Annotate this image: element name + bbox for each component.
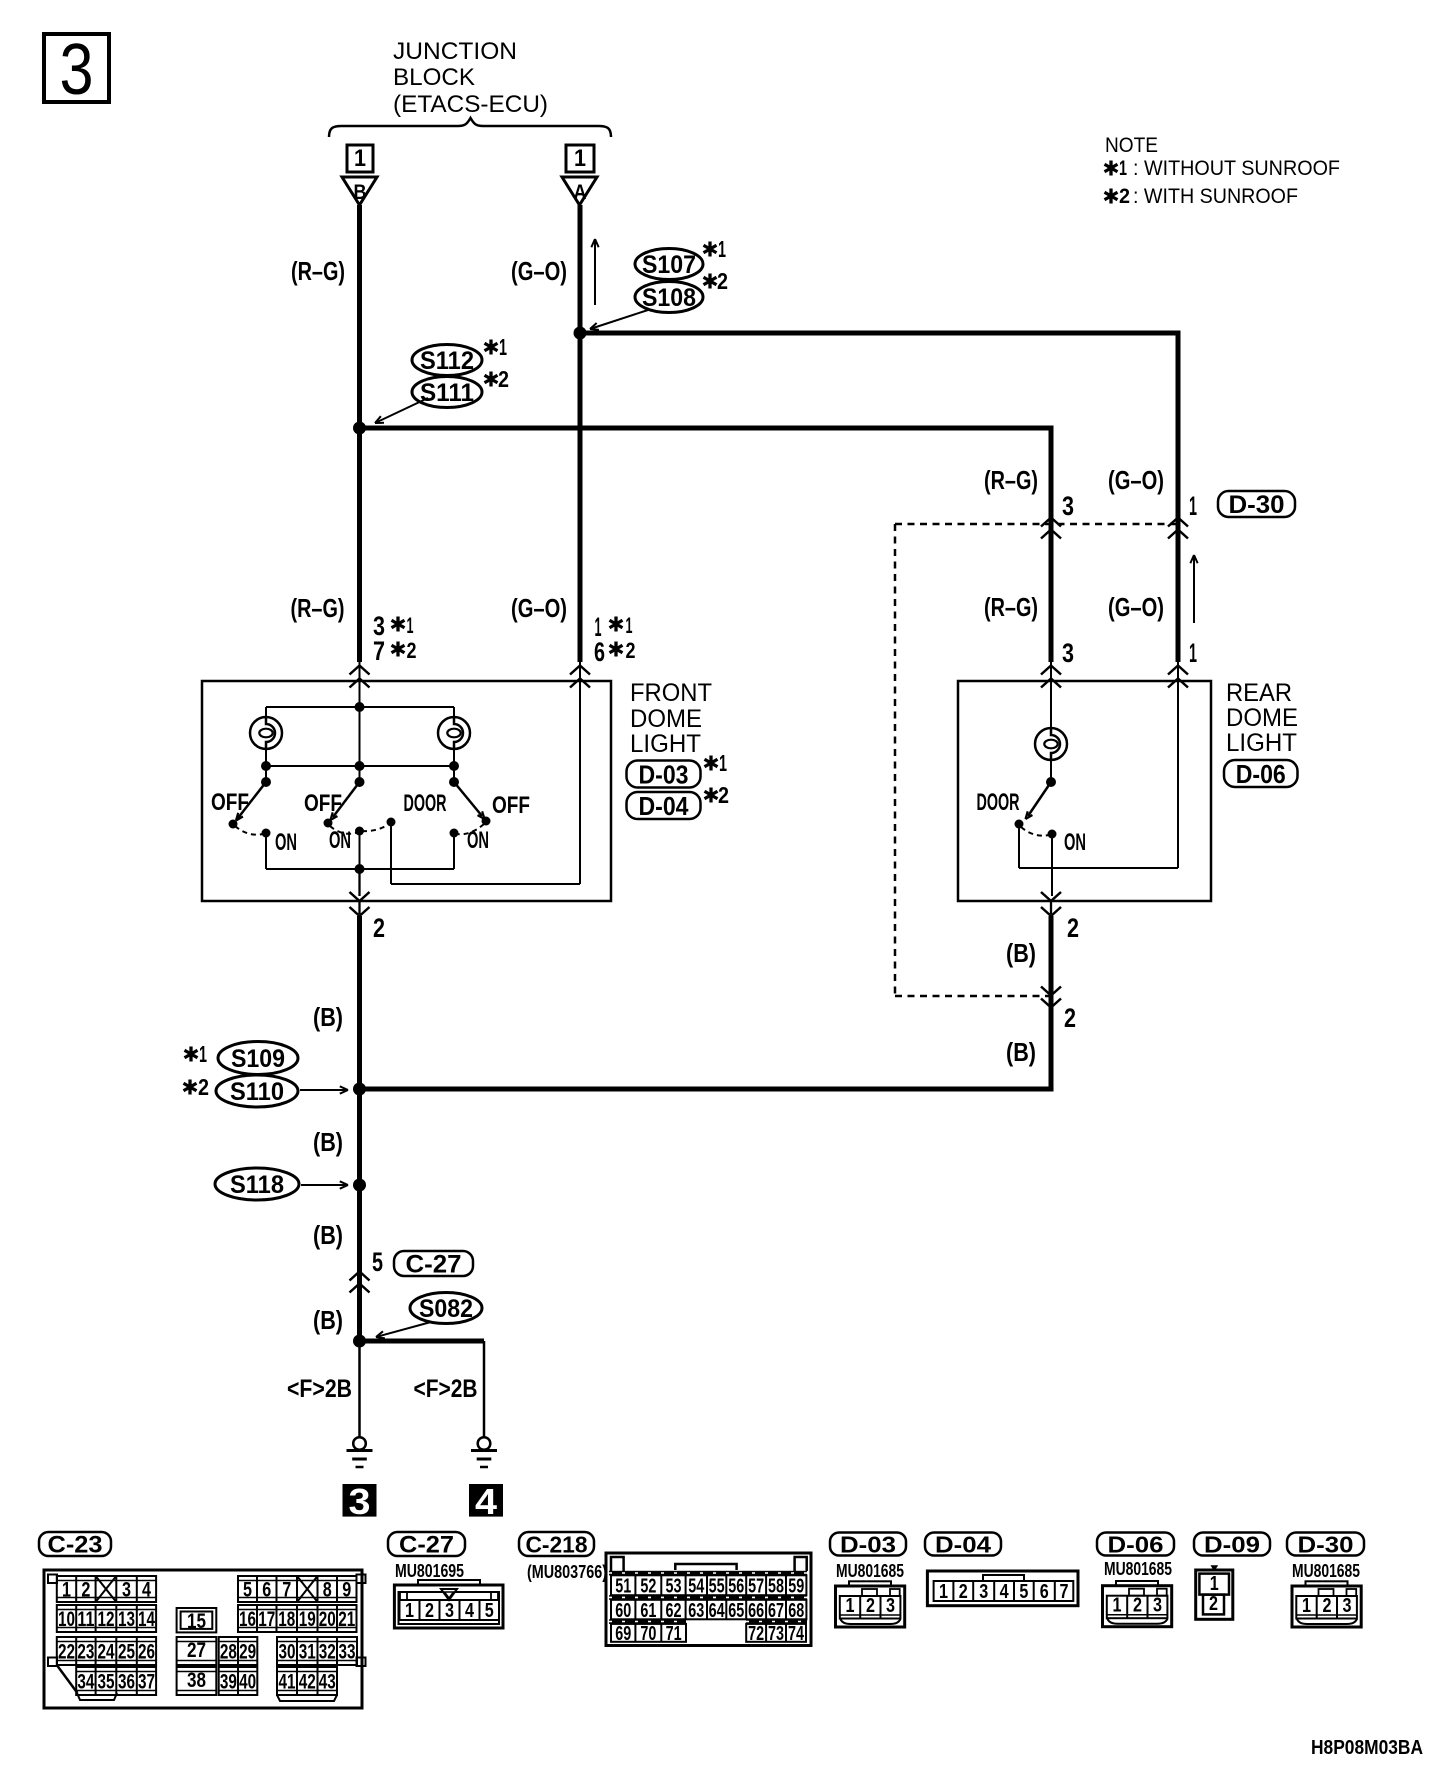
svg-text:26: 26	[138, 1641, 155, 1664]
svg-text:2: 2	[718, 782, 729, 808]
svg-text:19: 19	[299, 1608, 316, 1631]
svg-text:24: 24	[97, 1641, 114, 1664]
svg-text:2: 2	[81, 1579, 90, 1602]
svg-text:B: B	[354, 181, 367, 204]
svg-text:(B): (B)	[313, 1220, 343, 1250]
svg-text:23: 23	[77, 1641, 94, 1664]
svg-text:(B): (B)	[313, 1002, 343, 1032]
svg-text:18: 18	[278, 1608, 295, 1631]
svg-text:(G–O): (G–O)	[511, 593, 567, 623]
svg-text:(MU803766): (MU803766)	[527, 1562, 607, 1582]
svg-text:71: 71	[666, 1623, 682, 1645]
svg-text:1: 1	[1189, 491, 1197, 521]
svg-text:C-27: C-27	[406, 1251, 462, 1279]
svg-text:3: 3	[122, 1579, 131, 1602]
svg-text:6: 6	[594, 637, 605, 667]
svg-text:ON: ON	[275, 829, 297, 856]
svg-text:1: 1	[719, 750, 727, 776]
svg-text:10: 10	[58, 1608, 75, 1631]
svg-text:3: 3	[1062, 638, 1074, 668]
svg-text:28: 28	[220, 1641, 237, 1664]
svg-text:41: 41	[279, 1671, 296, 1694]
svg-text:C-218: C-218	[526, 1531, 588, 1557]
svg-text:8: 8	[323, 1579, 332, 1602]
svg-text:73: 73	[768, 1623, 784, 1645]
svg-text:: WITHOUT SUNROOF: : WITHOUT SUNROOF	[1133, 157, 1340, 180]
svg-text:7: 7	[1060, 1581, 1069, 1603]
svg-text:34: 34	[77, 1671, 94, 1694]
svg-text:S110: S110	[230, 1078, 284, 1106]
svg-text:2: 2	[1119, 185, 1130, 208]
svg-text:27: 27	[187, 1639, 206, 1662]
svg-text:13: 13	[118, 1608, 135, 1631]
svg-text:22: 22	[58, 1641, 75, 1664]
svg-text:29: 29	[239, 1641, 256, 1664]
svg-text:1: 1	[62, 1579, 71, 1602]
svg-text:2: 2	[425, 1600, 434, 1622]
svg-text:1: 1	[939, 1581, 948, 1603]
svg-text:(G–O): (G–O)	[511, 256, 567, 286]
svg-text:FRONT: FRONT	[630, 679, 712, 707]
svg-text:S112: S112	[420, 347, 474, 375]
svg-text:54: 54	[688, 1575, 705, 1597]
svg-text:D-03: D-03	[639, 759, 689, 789]
svg-text:3: 3	[60, 30, 94, 110]
svg-text:D-30: D-30	[1298, 1531, 1354, 1557]
svg-text:2: 2	[717, 268, 728, 294]
svg-text:MU801695: MU801695	[395, 1561, 464, 1581]
svg-text:15: 15	[187, 1610, 206, 1633]
svg-text:43: 43	[319, 1671, 336, 1694]
svg-text:LIGHT: LIGHT	[630, 730, 701, 758]
svg-text:D-06: D-06	[1108, 1531, 1164, 1557]
svg-text:2: 2	[1133, 1595, 1142, 1617]
svg-text:4: 4	[142, 1579, 151, 1602]
svg-text:4: 4	[465, 1600, 475, 1622]
svg-text:<F>2B: <F>2B	[287, 1375, 352, 1403]
svg-text:1: 1	[626, 613, 633, 638]
svg-text:DOME: DOME	[630, 705, 702, 733]
svg-text:66: 66	[748, 1600, 764, 1622]
svg-text:20: 20	[319, 1608, 336, 1631]
svg-text:NOTE: NOTE	[1105, 134, 1158, 157]
svg-text:1: 1	[405, 1600, 414, 1622]
svg-text:3: 3	[1062, 491, 1074, 521]
svg-text:1: 1	[407, 613, 414, 638]
svg-text:MU801685: MU801685	[1104, 1559, 1172, 1579]
svg-text:4: 4	[1000, 1581, 1010, 1603]
svg-text:2: 2	[198, 1074, 209, 1100]
svg-text:(B): (B)	[1006, 1037, 1036, 1067]
svg-text:DOOR: DOOR	[977, 789, 1020, 816]
svg-text:2: 2	[1064, 1003, 1076, 1033]
svg-text:32: 32	[319, 1641, 336, 1664]
svg-text:C-23: C-23	[48, 1532, 103, 1559]
svg-text:(R–G): (R–G)	[984, 465, 1038, 495]
svg-text:LIGHT: LIGHT	[1226, 729, 1297, 757]
svg-text:7: 7	[373, 636, 385, 666]
svg-text:5: 5	[1019, 1581, 1028, 1603]
svg-text:69: 69	[615, 1623, 631, 1645]
svg-text:1: 1	[718, 236, 726, 262]
svg-text:: WITH SUNROOF: : WITH SUNROOF	[1133, 185, 1298, 208]
svg-text:11: 11	[77, 1608, 94, 1631]
svg-text:55: 55	[709, 1575, 725, 1597]
svg-text:5: 5	[372, 1247, 383, 1277]
svg-text:(B): (B)	[1006, 938, 1036, 968]
svg-text:53: 53	[665, 1575, 681, 1597]
svg-text:74: 74	[788, 1623, 805, 1645]
svg-text:DOME: DOME	[1226, 704, 1298, 732]
svg-text:3: 3	[349, 1481, 371, 1522]
svg-text:BLOCK: BLOCK	[393, 64, 475, 91]
svg-text:21: 21	[338, 1608, 355, 1631]
svg-text:1: 1	[1302, 1595, 1311, 1617]
svg-text:1: 1	[1119, 157, 1127, 180]
svg-text:51: 51	[615, 1575, 631, 1597]
svg-text:ON: ON	[1064, 829, 1086, 856]
svg-text:5: 5	[485, 1600, 494, 1622]
svg-text:D-06: D-06	[1236, 759, 1286, 789]
svg-text:ON: ON	[329, 827, 351, 854]
svg-text:DOOR: DOOR	[404, 790, 447, 817]
svg-text:(G–O): (G–O)	[1108, 592, 1164, 622]
svg-text:52: 52	[640, 1575, 656, 1597]
svg-text:2: 2	[1209, 1593, 1218, 1615]
svg-text:ON: ON	[467, 827, 489, 854]
svg-text:(G–O): (G–O)	[1108, 465, 1164, 495]
svg-text:(R–G): (R–G)	[984, 592, 1038, 622]
svg-text:25: 25	[118, 1641, 135, 1664]
svg-text:OFF: OFF	[211, 789, 249, 816]
svg-text:62: 62	[665, 1600, 681, 1622]
svg-text:2: 2	[407, 638, 417, 663]
svg-text:2: 2	[373, 913, 385, 943]
svg-text:63: 63	[688, 1600, 704, 1622]
svg-text:6: 6	[1040, 1581, 1049, 1603]
svg-text:65: 65	[728, 1600, 744, 1622]
svg-text:S118: S118	[230, 1171, 284, 1199]
svg-text:(B): (B)	[313, 1127, 343, 1157]
svg-text:1: 1	[1189, 638, 1197, 668]
svg-text:64: 64	[709, 1600, 726, 1622]
svg-text:2: 2	[959, 1581, 968, 1603]
svg-text:D-04: D-04	[935, 1531, 991, 1557]
svg-text:57: 57	[748, 1575, 764, 1597]
svg-text:38: 38	[187, 1669, 206, 1692]
svg-text:S109: S109	[231, 1045, 285, 1073]
svg-text:<F>2B: <F>2B	[414, 1375, 478, 1403]
svg-text:1: 1	[1210, 1573, 1219, 1595]
svg-text:70: 70	[640, 1623, 656, 1645]
svg-text:D-04: D-04	[639, 791, 689, 821]
svg-text:60: 60	[615, 1600, 631, 1622]
svg-text:1: 1	[1113, 1595, 1122, 1617]
svg-text:3: 3	[979, 1581, 988, 1603]
svg-text:5: 5	[243, 1579, 252, 1602]
svg-text:D-30: D-30	[1229, 491, 1285, 519]
svg-text:2: 2	[498, 366, 509, 392]
svg-text:1: 1	[846, 1595, 855, 1617]
svg-text:(ETACS-ECU): (ETACS-ECU)	[393, 91, 548, 118]
svg-text:3: 3	[1343, 1595, 1352, 1617]
svg-text:2: 2	[626, 638, 636, 663]
svg-text:1: 1	[354, 145, 366, 172]
svg-text:33: 33	[339, 1641, 356, 1664]
svg-text:MU801685: MU801685	[836, 1561, 904, 1581]
svg-text:1: 1	[199, 1041, 207, 1067]
svg-text:MU801685: MU801685	[1292, 1561, 1360, 1581]
svg-text:61: 61	[640, 1600, 656, 1622]
svg-text:7: 7	[282, 1579, 291, 1602]
svg-text:A: A	[574, 181, 587, 204]
svg-text:31: 31	[299, 1641, 316, 1664]
svg-text:30: 30	[279, 1641, 296, 1664]
svg-text:REAR: REAR	[1226, 679, 1292, 707]
svg-text:37: 37	[138, 1671, 155, 1694]
svg-text:C-27: C-27	[399, 1532, 454, 1559]
svg-text:(R–G): (R–G)	[291, 593, 345, 623]
svg-text:S082: S082	[419, 1295, 473, 1323]
svg-text:17: 17	[258, 1608, 275, 1631]
svg-text:56: 56	[728, 1575, 744, 1597]
svg-text:H8P08M03BA: H8P08M03BA	[1311, 1737, 1423, 1759]
svg-text:2: 2	[1067, 913, 1079, 943]
svg-text:(B): (B)	[313, 1305, 343, 1335]
svg-text:4: 4	[475, 1481, 497, 1522]
svg-text:OFF: OFF	[492, 792, 530, 819]
svg-text:6: 6	[262, 1579, 271, 1602]
svg-text:S107: S107	[642, 251, 696, 279]
svg-text:36: 36	[118, 1671, 135, 1694]
svg-text:9: 9	[342, 1579, 351, 1602]
svg-text:2: 2	[866, 1595, 875, 1617]
svg-text:42: 42	[299, 1671, 316, 1694]
svg-text:12: 12	[97, 1608, 114, 1631]
svg-text:1: 1	[499, 334, 507, 360]
svg-text:OFF: OFF	[304, 790, 342, 817]
svg-text:(R–G): (R–G)	[291, 256, 345, 286]
svg-text:D-09: D-09	[1204, 1531, 1260, 1557]
svg-text:S108: S108	[642, 284, 696, 312]
svg-text:40: 40	[239, 1671, 256, 1694]
svg-text:72: 72	[748, 1623, 764, 1645]
svg-text:59: 59	[788, 1575, 804, 1597]
svg-text:S111: S111	[420, 379, 474, 407]
svg-text:3: 3	[886, 1595, 895, 1617]
svg-text:1: 1	[574, 145, 586, 172]
svg-text:3: 3	[445, 1600, 454, 1622]
svg-text:39: 39	[220, 1671, 237, 1694]
svg-text:67: 67	[768, 1600, 784, 1622]
svg-text:3: 3	[1153, 1595, 1162, 1617]
svg-text:16: 16	[239, 1608, 256, 1631]
svg-text:JUNCTION: JUNCTION	[393, 38, 517, 65]
svg-text:2: 2	[1323, 1595, 1332, 1617]
svg-text:35: 35	[97, 1671, 114, 1694]
svg-text:D-03: D-03	[840, 1531, 896, 1557]
svg-text:68: 68	[788, 1600, 804, 1622]
svg-text:58: 58	[768, 1575, 784, 1597]
svg-text:14: 14	[138, 1608, 155, 1631]
